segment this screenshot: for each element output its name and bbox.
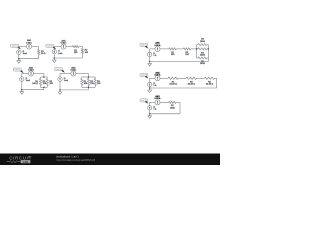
- ammeter AM1 (circuit 1): [26, 44, 31, 49]
- wire R2 top stem (circuit 3): [46, 77, 48, 79]
- label R2 (circuit 2): [85, 50, 89, 54]
- wire bottom (circuit 3): [22, 89, 44, 91]
- junction (circuit 6): [149, 87, 151, 89]
- svg-text:Lab 1a: Lab 1a: [12, 45, 19, 47]
- wire source top stem (circuit 6): [149, 78, 151, 82]
- wire bottom (circuit 4): [60, 89, 88, 91]
- label R3 (circuit 6): [206, 81, 214, 85]
- label R1 (circuit 7): [170, 105, 175, 109]
- wire source bottom stem (circuit 4): [59, 82, 61, 90]
- label R4 (circuit 5): [200, 52, 205, 56]
- wire top a (circuit 7): [160, 101, 168, 103]
- wire bottom (circuit 6): [150, 87, 217, 89]
- label R1 (circuit 4): [84, 81, 88, 85]
- label AM1 (circuit 5): [155, 42, 162, 47]
- resistor R5 (circuit 5): [197, 57, 198, 59]
- resistor R1 (circuit 7): [169, 101, 177, 103]
- svg-text:100Ω: 100Ω: [200, 63, 205, 65]
- svg-text:10 Ω: 10 Ω: [41, 53, 46, 55]
- svg-text:LAB: LAB: [23, 160, 29, 164]
- current source I1 (circuit 3): [20, 77, 24, 81]
- wire R1 bottom stem (circuit 4): [81, 86, 83, 88]
- ammeter AM1 (circuit 3): [28, 71, 33, 76]
- annotation box (circuit 1): [11, 44, 19, 47]
- wire block feed top (circuit 3): [43, 74, 45, 78]
- annotation box (circuit 3): [13, 68, 21, 71]
- label AM1 (circuit 7): [155, 95, 162, 100]
- cursor arrow (circuit 2): [53, 47, 56, 50]
- wire R1 top stem (circuit 3): [40, 77, 42, 79]
- resistor R3 (circuit 6): [204, 77, 214, 79]
- junction block top (circuit 3): [43, 76, 45, 78]
- wire top d (circuit 6): [215, 77, 217, 79]
- resistor R1 (circuit 4): [81, 79, 83, 86]
- junction (circuit 5): [149, 61, 151, 63]
- cursor arrow (circuit 6): [145, 76, 148, 79]
- wire top-left (circuit 3): [22, 73, 29, 75]
- junction (circuit 3): [21, 89, 23, 91]
- resistor R2 (circuit 6): [186, 77, 196, 79]
- label I1 (circuit 6): [153, 83, 157, 87]
- label R5 (circuit 5): [200, 61, 205, 65]
- junction (circuit 4): [59, 89, 61, 91]
- cursor arrow (circuit 1): [18, 47, 21, 50]
- junction block bottom (circuit 3): [43, 87, 45, 89]
- ground (circuit 2): [52, 58, 56, 62]
- svg-text:33.33 Ω: 33.33 Ω: [188, 84, 196, 86]
- wire source top stem (circuit 1): [18, 47, 20, 50]
- wire top b (circuit 7): [176, 101, 180, 103]
- label I1 (circuit 2): [58, 51, 63, 55]
- wire R2 top stem (circuit 2): [81, 47, 83, 49]
- wire top c (circuit 5): [191, 48, 197, 50]
- cursor arrow (circuit 3): [20, 70, 23, 73]
- resistor R2 (circuit 2): [81, 49, 83, 54]
- annotation box (circuit 5): [140, 43, 148, 46]
- svg-text:0.00m: 0.00m: [28, 70, 34, 72]
- svg-text:0.00m: 0.00m: [61, 43, 67, 45]
- wire source top stem (circuit 7): [149, 102, 151, 105]
- wire block feed bottom (circuit 4): [87, 87, 89, 90]
- wire block feed bottom (circuit 3): [43, 87, 45, 89]
- current source I1 (circuit 4): [58, 77, 62, 81]
- ground (circuit 3): [20, 90, 24, 94]
- ground (circuit 6): [148, 88, 152, 92]
- svg-text:1mA: 1mA: [58, 52, 63, 55]
- wire top-left (circuit 4): [60, 73, 71, 75]
- svg-text:Lab 1d: Lab 1d: [56, 69, 62, 71]
- ammeter AM1 (circuit 7): [155, 100, 160, 105]
- ammeter AM1 (circuit 5): [155, 46, 160, 51]
- label AM1 (circuit 6): [155, 71, 162, 76]
- logo small mark after CIRCUIT: [28, 156, 29, 158]
- svg-text:1mA: 1mA: [23, 52, 28, 55]
- label R1 (circuit 3): [32, 81, 38, 85]
- label AM1 (circuit 3): [28, 66, 34, 71]
- label I1 (circuit 4): [64, 78, 69, 82]
- label R1 (circuit 5): [171, 52, 175, 56]
- label I1 (circuit 5): [153, 53, 157, 57]
- label R1 (circuit 6): [169, 81, 177, 85]
- wire top-left (circuit 1): [19, 46, 27, 48]
- wire top-left (circuit 6): [150, 77, 155, 79]
- annotation box (circuit 2): [46, 44, 54, 47]
- cursor arrow (circuit 4): [62, 70, 65, 73]
- ground (circuit 7): [148, 114, 152, 118]
- wire bottom (circuit 2): [54, 57, 82, 59]
- label AM1 (circuit 1): [26, 39, 32, 44]
- wire resistor bottom stem (circuit 1): [38, 55, 40, 59]
- wire bottom (circuit 1): [19, 58, 39, 60]
- svg-text:33.33 Ω: 33.33 Ω: [169, 84, 177, 86]
- resistor R1 (circuit 6): [168, 77, 178, 79]
- wire R1 top stem (circuit 4): [81, 77, 83, 79]
- svg-text:1mA: 1mA: [26, 79, 31, 82]
- ground (circuit 1): [17, 59, 21, 63]
- label I1 (circuit 1): [23, 51, 28, 55]
- CircuitLab logo: LAB text: [21, 160, 31, 163]
- wire top b (circuit 5): [176, 48, 183, 50]
- ground (circuit 5): [148, 62, 152, 66]
- wire top c (circuit 6): [196, 77, 204, 79]
- current source I1 (circuit 6): [148, 82, 152, 86]
- label I1 (circuit 7): [153, 106, 157, 110]
- junction (circuit 7): [149, 113, 151, 115]
- wire top a (circuit 5): [160, 48, 169, 50]
- svg-text:0.00 A: 0.00 A: [155, 44, 162, 47]
- current source I1 (circuit 5): [148, 52, 152, 56]
- resistor R1 (circuit 3): [39, 79, 41, 86]
- junction (circuit 2): [54, 57, 56, 59]
- resistor R1 (circuit 5): [169, 48, 176, 50]
- svg-text:100Ω: 100Ω: [200, 41, 205, 43]
- wire R3 top stem (circuit 4): [94, 77, 96, 79]
- wire source top stem (circuit 2): [53, 47, 55, 50]
- svg-text:0.00 A: 0.00 A: [155, 97, 162, 100]
- resistor R3 (circuit 5): [197, 44, 198, 46]
- label R1 (circuit 1): [41, 51, 46, 55]
- wire R2 top stem (circuit 4): [88, 77, 90, 79]
- svg-text:Lab 1c: Lab 1c: [15, 69, 21, 71]
- resistor R2 (circuit 3): [46, 79, 48, 86]
- wire block bottom bar (circuit 4): [82, 86, 95, 88]
- wire R2 bottom stem (circuit 3): [46, 86, 48, 88]
- svg-text:1mA: 1mA: [64, 79, 69, 82]
- wire top-right (circuit 1): [32, 46, 39, 48]
- wire top a (circuit 6): [160, 77, 168, 79]
- svg-text:100Ω: 100Ω: [170, 107, 175, 109]
- wire top-mid (circuit 2): [66, 46, 72, 48]
- wire bottom (circuit 5): [150, 61, 209, 63]
- wire source top stem (circuit 4): [59, 74, 61, 77]
- wire source top stem (circuit 3): [21, 74, 23, 77]
- wire source bottom stem (circuit 5): [149, 57, 151, 62]
- junction (circuit 1): [18, 58, 20, 60]
- wire right branch (circuit 7): [179, 102, 181, 113]
- wire block top bar (circuit 4): [82, 76, 95, 78]
- ammeter AM1 (circuit 6): [155, 76, 160, 81]
- ammeter AM1 (circuit 4): [71, 71, 76, 76]
- wire block top bar (circuit 3): [41, 76, 48, 78]
- annotation box (circuit 7): [140, 99, 148, 102]
- wire R2 bottom stem (circuit 2): [81, 54, 83, 59]
- cursor arrow (circuit 7): [145, 101, 148, 104]
- wire block right bar (circuit 5): [207, 45, 209, 62]
- label R3 (circuit 4): [97, 81, 101, 85]
- wire top b (circuit 6): [178, 77, 186, 79]
- ground (circuit 4): [58, 90, 62, 94]
- label AM1 (circuit 4): [71, 66, 77, 71]
- resistor R4 (circuit 5): [197, 48, 198, 50]
- wire R1 bottom stem (circuit 3): [40, 86, 42, 88]
- wire top-right (circuit 3): [34, 73, 44, 75]
- wire source bottom stem (circuit 7): [149, 110, 151, 113]
- junction block right (circuit 5): [208, 48, 210, 50]
- svg-text:Lab 1b: Lab 1b: [47, 45, 53, 47]
- svg-text:0.00 A: 0.00 A: [155, 74, 162, 77]
- svg-text:http://circuitlab.com/c2mau565: http://circuitlab.com/c2mau5656/7cp8: [57, 159, 96, 162]
- wire source bottom stem (circuit 1): [18, 55, 20, 59]
- junction block left (circuit 5): [196, 48, 198, 50]
- svg-text:100Ω: 100Ω: [200, 55, 205, 57]
- label AM1 (circuit 2): [61, 39, 67, 44]
- wire R3 bottom stem (circuit 4): [94, 86, 96, 88]
- junction block top (circuit 4): [88, 76, 90, 78]
- resistor R3 (circuit 4): [94, 79, 96, 86]
- svg-text:33.33 Ω: 33.33 Ω: [206, 84, 214, 86]
- wire top-right (circuit 4): [76, 73, 88, 75]
- ammeter AM1 (circuit 2): [61, 44, 66, 49]
- wire source bottom stem (circuit 6): [149, 87, 151, 88]
- current source I1 (circuit 2): [52, 50, 56, 54]
- wire bottom (circuit 7): [150, 113, 180, 115]
- svg-text:jessicabond / Lab 1: jessicabond / Lab 1: [56, 154, 80, 158]
- label R2 (circuit 4): [90, 81, 94, 85]
- svg-text:0.00m: 0.00m: [71, 70, 77, 72]
- label R1 (circuit 2): [74, 50, 78, 54]
- resistor R2 (circuit 5): [183, 48, 190, 50]
- wire resistor top stem (circuit 1): [38, 47, 40, 50]
- resistor R1 (circuit 2): [73, 45, 79, 47]
- cursor arrow (circuit 5): [145, 46, 148, 49]
- wire source bottom stem (circuit 2): [53, 54, 55, 58]
- wire right branch (circuit 6): [216, 78, 218, 88]
- svg-text:100 Ω: 100 Ω: [32, 83, 38, 85]
- resistor R2 (circuit 4): [87, 79, 89, 86]
- CircuitLab logo: resistor squiggle: [7, 161, 21, 163]
- svg-text:0.00m: 0.00m: [26, 42, 32, 44]
- wire R2 bottom stem (circuit 4): [88, 86, 90, 88]
- wire top-left (circuit 2): [54, 46, 61, 48]
- label R2 (circuit 3): [43, 81, 47, 85]
- junction block bottom (circuit 4): [88, 87, 90, 89]
- wire block left bar (circuit 5): [196, 45, 198, 58]
- wire block feed top (circuit 4): [87, 74, 89, 78]
- wire top-left (circuit 7): [150, 101, 155, 103]
- label R3 (circuit 5): [200, 39, 205, 43]
- wire source bottom stem (circuit 3): [21, 82, 23, 90]
- wire block bottom bar (circuit 3): [41, 86, 48, 88]
- current source I1 (circuit 1): [17, 50, 21, 54]
- wire source top stem (circuit 5): [149, 49, 151, 52]
- label I1 (circuit 3): [26, 78, 31, 82]
- current source I1 (circuit 7): [148, 106, 152, 110]
- label R2 (circuit 5): [185, 52, 189, 56]
- wire top-left (circuit 5): [150, 48, 155, 50]
- annotation box (circuit 6): [140, 73, 148, 76]
- label R2 value (circuit 3): [49, 81, 53, 85]
- label R2 (circuit 6): [188, 81, 196, 85]
- annotation box (circuit 4): [55, 68, 63, 71]
- footer bar: [0, 154, 220, 166]
- resistor R1 (circuit 1): [38, 50, 40, 55]
- wire top-right (circuit 2): [79, 46, 83, 48]
